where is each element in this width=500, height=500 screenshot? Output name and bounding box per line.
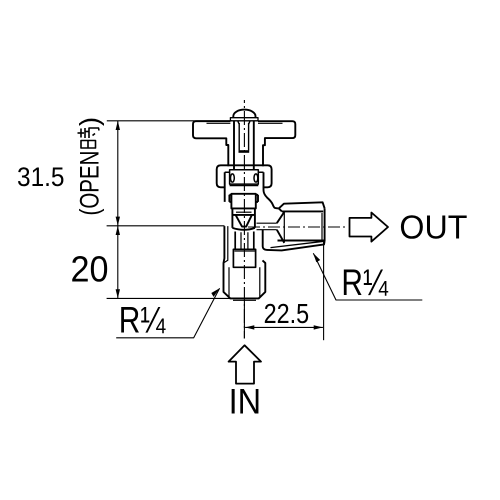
- svg-text:R¼: R¼: [119, 300, 166, 341]
- svg-text:R¼: R¼: [341, 262, 388, 303]
- svg-text:22.5: 22.5: [264, 298, 310, 329]
- svg-text:(OPEN: (OPEN: [75, 151, 105, 216]
- svg-text:OUT: OUT: [399, 209, 467, 246]
- svg-text:31.5: 31.5: [17, 162, 65, 192]
- svg-text:): ): [75, 117, 105, 126]
- svg-text:20: 20: [71, 248, 109, 289]
- svg-text:IN: IN: [229, 383, 262, 422]
